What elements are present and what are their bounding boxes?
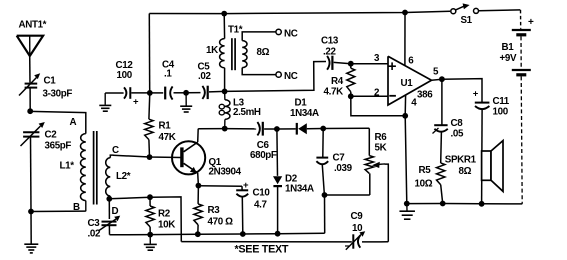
svg-text:C9: C9 (351, 211, 364, 222)
wire output to C11 (442, 79, 482, 102)
capacitor C11 (475, 102, 490, 104)
resistor R1 (145, 119, 153, 139)
wire pin3 (351, 63, 388, 65)
svg-text:386: 386 (417, 90, 433, 101)
wire R2 top (149, 197, 151, 206)
svg-text:A: A (70, 117, 77, 128)
svg-text:D1: D1 (295, 98, 308, 109)
svg-text:S1: S1 (461, 15, 473, 26)
wire junction to R6 top (323, 127, 369, 129)
svg-text:4.7K: 4.7K (324, 87, 344, 98)
inductor L2 (106, 158, 111, 196)
capacitor C13 (327, 56, 329, 70)
node D junction (106, 196, 112, 202)
speaker SPKR1 (482, 151, 491, 180)
svg-text:NC: NC (284, 71, 298, 82)
svg-text:470 Ω: 470 Ω (208, 217, 234, 228)
battery B1 (512, 29, 531, 31)
wire D2 to ground rail (277, 186, 279, 234)
svg-text:.02: .02 (198, 71, 211, 82)
capacitor C9 (352, 234, 354, 248)
junction Q1 emitter (196, 183, 202, 189)
wire C6 to D1 junction (264, 128, 277, 130)
svg-text:R6: R6 (375, 132, 388, 143)
wire C13 to pin3 junction (334, 62, 351, 63)
svg-text:.039: .039 (334, 163, 353, 174)
wire junction to C5 (186, 92, 200, 94)
svg-text:5K: 5K (375, 143, 387, 154)
svg-text:2.5mH: 2.5mH (233, 107, 261, 118)
wire antenna to C1 (29, 55, 31, 83)
svg-text:8Ω: 8Ω (257, 47, 270, 58)
svg-text:C3: C3 (88, 218, 101, 229)
wire C11 to speaker line (481, 109, 484, 203)
wire R6 wiper to C9 line (385, 164, 389, 242)
wire C8 to R5 (440, 132, 443, 163)
svg-text:R1: R1 (159, 121, 172, 132)
svg-text:1N34A: 1N34A (285, 184, 314, 195)
transistor Q1 (172, 141, 205, 174)
resistor R3 (194, 204, 202, 225)
svg-text:*SEE TEXT: *SEE TEXT (235, 243, 289, 255)
wire D2 branch (276, 129, 279, 176)
svg-text:4: 4 (411, 98, 417, 109)
svg-text:+9V: +9V (500, 53, 517, 64)
resistor R5 (437, 163, 445, 185)
svg-text:10Ω: 10Ω (415, 179, 433, 190)
junction ground rail R2 (147, 232, 153, 238)
svg-text:5: 5 (433, 67, 439, 78)
svg-text:4.7: 4.7 (254, 200, 267, 211)
capacitor C8 (434, 124, 447, 126)
junction ground rail C10 (240, 231, 246, 237)
inductor L1 (80, 134, 85, 201)
wire C1 to node A (29, 89, 31, 112)
capacitor C7 (316, 157, 328, 159)
wire R6 bottom lead (369, 173, 371, 195)
ground at B (24, 243, 38, 245)
svg-text:1N34A: 1N34A (290, 108, 319, 119)
svg-text:+: + (133, 97, 139, 108)
wire pin2 to ground path (351, 96, 405, 116)
svg-text:6: 6 (408, 56, 414, 67)
wire C7 bottom (322, 165, 324, 195)
svg-text:L1*: L1* (60, 161, 75, 172)
svg-text:L2*: L2* (116, 171, 131, 182)
svg-text:2N3904: 2N3904 (209, 167, 242, 178)
ground at rail R2 (149, 235, 151, 244)
svg-text:T1*: T1* (228, 25, 243, 36)
wire node B to L1 bottom (31, 210, 86, 212)
wire C10 bottom (241, 197, 244, 234)
junction main line T1-L3 (222, 89, 228, 95)
svg-text:10: 10 (352, 223, 363, 234)
wire B to ground (30, 212, 32, 244)
wire C7 junction to R6 bottom (325, 194, 370, 196)
wire pin5 output (432, 79, 442, 80)
wire Q1 collector (197, 129, 200, 142)
diode D1 (296, 123, 298, 135)
inductor L3 (224, 91, 226, 99)
wire feedback line right (362, 241, 388, 243)
wire pin4 down (404, 95, 406, 116)
junction rail pin4 (404, 201, 410, 207)
svg-text:ANT1*: ANT1* (19, 20, 47, 31)
wire emitter to C10 (198, 185, 242, 188)
node B junction (28, 209, 34, 215)
wire C7 top (322, 129, 324, 158)
wire output to C8 (441, 79, 443, 125)
wire R3 to ground rail (197, 225, 199, 234)
svg-text:.22: .22 (323, 47, 336, 58)
resistor R2 (146, 206, 154, 227)
wire L3 junction to C6 (225, 128, 257, 130)
junction detector L3 (222, 126, 228, 132)
wire R5 to rail (441, 185, 443, 204)
svg-text:R3: R3 (208, 205, 221, 216)
antenna ANT1* symbol (17, 36, 43, 56)
junction node C R1 (147, 154, 153, 160)
svg-text:SPKR1: SPKR1 (445, 155, 477, 166)
capacitor C12 (124, 87, 126, 98)
wire emitter to R3 (197, 186, 199, 204)
wire C12 to junction (131, 92, 150, 94)
junction ground rail R3 (195, 231, 201, 237)
svg-text:+: + (243, 180, 249, 191)
svg-text:10K: 10K (158, 220, 175, 231)
wire battery negative to rail (521, 76, 522, 203)
transformer core (93, 131, 95, 205)
wire top rail (149, 11, 450, 13)
capacitor C10 (236, 189, 248, 191)
svg-text:.1: .1 (164, 69, 172, 80)
resistor R4 (347, 68, 355, 92)
wire C4 to ground junction (174, 92, 187, 94)
svg-text:2: 2 (374, 88, 380, 99)
capacitor C2 (23, 131, 39, 133)
svg-text:+: + (473, 88, 479, 99)
junction pin4 ground path (402, 113, 408, 119)
junction rail R5 (440, 201, 446, 207)
wire junction to C4 (150, 92, 163, 94)
svg-text:.02: .02 (88, 229, 101, 240)
potentiometer R6 wiper (380, 163, 385, 165)
wire C3 to ground rail (108, 226, 110, 235)
svg-text:C2: C2 (45, 130, 58, 141)
svg-text:B1: B1 (502, 42, 515, 53)
wire R1 to node C (148, 140, 151, 157)
resistor R6 potentiometer (365, 156, 373, 174)
node C wire to Q1 base (113, 155, 181, 157)
wire pin2 (351, 95, 388, 97)
svg-text:NC: NC (284, 29, 298, 40)
junction top rail T1 (221, 11, 227, 17)
junction main line ground (183, 90, 189, 96)
svg-text:C11: C11 (493, 96, 510, 107)
wire junction to D1 (277, 128, 296, 130)
svg-text:.05: .05 (451, 129, 464, 140)
wire node D to C3 (108, 199, 110, 219)
wire V+ vertical left (148, 14, 150, 93)
junction top rail pin6 (402, 10, 408, 16)
node A junction (27, 108, 33, 114)
wire C7 junction to ground rail (324, 195, 326, 233)
wire R2 to ground rail (149, 227, 151, 235)
junction pin2 (348, 93, 354, 99)
wire main line to C13 riser (225, 62, 326, 92)
svg-text:C8: C8 (451, 118, 464, 129)
junction R2 top (147, 194, 153, 200)
capacitor C1 (25, 83, 38, 85)
svg-text:C10: C10 (253, 188, 271, 199)
junction D1 C7 R6 (320, 126, 326, 132)
transformer T1 primary (220, 39, 225, 68)
wire collector line (198, 128, 225, 130)
svg-text:8Ω: 8Ω (459, 166, 472, 177)
svg-text:R4: R4 (331, 76, 344, 87)
svg-text:3: 3 (374, 53, 380, 64)
svg-text:R2: R2 (158, 209, 171, 220)
wire S1 to battery corner (479, 9, 521, 12)
svg-text:U1: U1 (401, 78, 414, 89)
wire bottom right rail (407, 203, 523, 205)
svg-text:100: 100 (117, 70, 133, 81)
svg-text:47K: 47K (159, 132, 176, 143)
wire feedback line left (181, 241, 351, 243)
ground at C12 (104, 93, 106, 105)
terminal NC top (276, 29, 281, 34)
wire C5 to T1 junction (209, 90, 225, 93)
wire ground rail (110, 233, 325, 235)
wire pin6 to top rail (404, 13, 406, 66)
svg-text:+: + (528, 17, 534, 28)
capacitor C4 (164, 87, 166, 100)
capacitor C3 (102, 221, 117, 223)
junction output node (439, 76, 445, 82)
wire junction to R1 (148, 93, 151, 119)
junction C7 R6 bottom (322, 192, 328, 198)
wire Q1 emitter (197, 173, 200, 186)
svg-text:1K: 1K (206, 45, 218, 56)
wire D1 to C7 junction (307, 128, 323, 130)
wire R4 top (350, 64, 352, 68)
svg-text:C7: C7 (333, 152, 346, 163)
wire T1 secondary top to NC (242, 32, 276, 41)
wire T1 secondary bottom to NC (242, 68, 276, 75)
wire C10 top (241, 186, 243, 190)
svg-text:D: D (112, 206, 119, 217)
junction rail speaker (479, 201, 485, 207)
wire R4 bottom (350, 92, 352, 97)
svg-text:100: 100 (493, 107, 509, 118)
capacitor C6 (257, 122, 259, 135)
ground at C4-C5 junction (185, 93, 187, 106)
junction ground rail D2 (275, 231, 281, 237)
svg-text:C13: C13 (321, 36, 339, 47)
wire ground to C12 (105, 92, 123, 94)
svg-text:C: C (112, 145, 119, 156)
junction C6 D1 D2 (274, 126, 280, 132)
svg-text:365pF: 365pF (45, 141, 72, 152)
junction pin3 (348, 61, 354, 67)
wire T1 primary to junction (224, 68, 226, 92)
diode D2 (273, 176, 282, 184)
ground at pin4 rail (406, 204, 408, 211)
svg-text:3-30pF: 3-30pF (43, 89, 73, 100)
svg-text:C1: C1 (44, 76, 57, 87)
wire node A to L1 top (30, 111, 86, 133)
wire R6 top lead (368, 128, 370, 155)
switch S1 (451, 9, 456, 14)
wire C2 to node B (30, 137, 33, 211)
junction main line R1 (147, 90, 153, 96)
svg-text:680pF: 680pF (250, 150, 277, 161)
capacitor C5 (202, 86, 204, 99)
terminal NC bottom (276, 72, 281, 77)
transformer T1 core (231, 38, 233, 70)
op-amp U1 (388, 56, 432, 105)
wire top rail to T1 primary (223, 14, 225, 39)
wire node D line (109, 197, 181, 242)
svg-text:R5: R5 (419, 165, 432, 176)
transformer T1 secondary (242, 41, 247, 68)
